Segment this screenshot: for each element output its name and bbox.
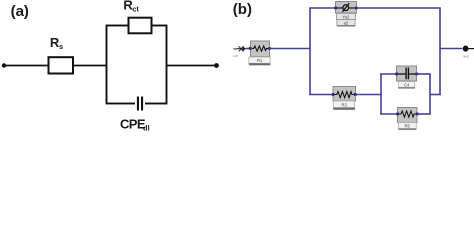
wire: left terminal to R1 [246, 48, 251, 50]
wire: parallel split left vertical [380, 74, 382, 114]
wire: top branch left [309, 7, 336, 9]
wire: resistor branch right [417, 113, 431, 115]
svg-text:R5: R5 [405, 124, 411, 129]
resistor R3 (box) [333, 87, 356, 102]
wire: parallel split right vertical [429, 74, 431, 114]
wire: R1 to split node [270, 48, 311, 50]
resistor R1 (box) [251, 41, 270, 57]
svg-text:R3: R3 [342, 103, 348, 108]
svg-text:CPE: CPE [120, 117, 146, 132]
wire: bottom branch left [309, 94, 334, 96]
wire: resistor branch left [380, 113, 398, 115]
capacitor CPEdl (on bottom branch) : white gap [135, 95, 145, 113]
svg-text:ct: ct [132, 5, 139, 14]
wire: parallel pair output stub [430, 94, 441, 96]
capacitor CPEdl plates [137, 97, 139, 111]
wire: top branch right [356, 7, 441, 9]
label cells Yo2 / a2 [336, 13, 355, 19]
node: left terminal dot [2, 63, 6, 67]
wire: capacitor branch left [380, 73, 397, 75]
svg-text:R1: R1 [257, 58, 263, 63]
svg-text:C4: C4 [404, 82, 410, 87]
terminal left (x marker with arrow) [234, 48, 243, 50]
wire: Rs to parallel loop [73, 65, 108, 67]
svg-text:c.e: c.e [233, 54, 238, 58]
wire: capacitor branch right [417, 73, 431, 75]
svg-text:(a): (a) [11, 3, 29, 20]
svg-text:a2: a2 [344, 20, 349, 25]
svg-text:s: s [59, 42, 63, 51]
svg-text:(b): (b) [233, 1, 252, 18]
resistor R5 (box) [398, 108, 418, 123]
label cell R1 [249, 57, 270, 63]
wire: loop to right terminal [167, 65, 217, 67]
wire: R3 to parallel split [355, 94, 382, 96]
capacitor C4 (box) [397, 66, 417, 81]
label cell R5 [398, 123, 416, 129]
wire: output to right terminal [440, 48, 463, 50]
node: right terminal dot [214, 63, 219, 68]
label cell R3 [333, 101, 354, 108]
svg-text:w.e: w.e [464, 54, 469, 58]
terminal right (dot) [463, 46, 469, 52]
CPE Q2 (box with phi symbol) [336, 2, 357, 14]
wire: left split vertical [309, 8, 311, 95]
label cell C4 [398, 82, 414, 88]
wire: parallel loop rectangle [107, 26, 167, 104]
wire: right vertical [439, 8, 441, 95]
svg-text:dl: dl [143, 124, 150, 133]
resistor Rct (on top branch) [129, 18, 152, 34]
wire: left terminal to Rs [4, 65, 49, 67]
resistor Rs [49, 57, 74, 73]
svg-text:Yo2: Yo2 [342, 14, 350, 19]
